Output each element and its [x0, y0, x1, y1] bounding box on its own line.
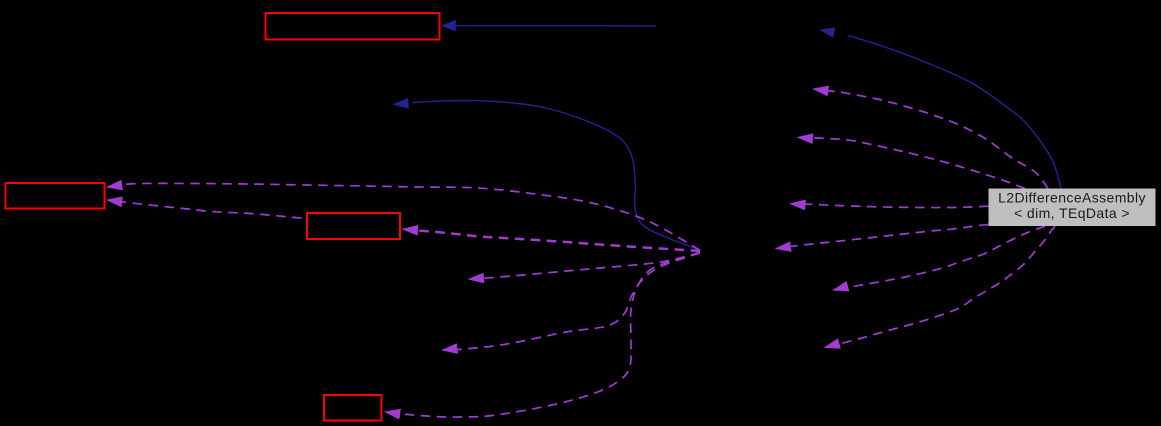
wire: dashed usage edge M1 (node B to middle red node) — [418, 230, 700, 250]
node: left red box (referenced class, label hidden) — [6, 183, 105, 209]
svg-text:L2DifferenceAssembly: L2DifferenceAssembly — [998, 190, 1146, 206]
arrowhead of edge R5 — [832, 281, 849, 291]
node U1: L2DifferenceAssembly < dim, TEqData > (current class, grey) — [989, 189, 1156, 227]
wire: solid inheritance edge E3 (invisible node B to invisible node C) — [412, 100, 700, 250]
arrowhead of edge R6 — [824, 338, 841, 348]
arrowhead of edge R4 — [775, 241, 792, 252]
node: middle red box (referenced class, label hidden) — [307, 213, 400, 239]
wire: dashed usage edge D5 (node B to bottom red node) — [402, 253, 700, 417]
svg-text:< dim, TEqData >: < dim, TEqData > — [1014, 205, 1130, 221]
arrowhead of edge R1 — [812, 86, 829, 97]
arrowhead of edge E3 — [393, 98, 409, 109]
node: top red box (referenced class, label hidden) — [266, 13, 440, 40]
arrowhead of edge D3 — [468, 273, 485, 284]
wire: dashed usage edge D2 (node B to left red node, lower) — [121, 202, 700, 252]
arrowhead of edge M1 — [402, 225, 419, 236]
node: bottom red box (referenced class, label hidden) — [324, 395, 382, 421]
wire: dashed usage edge R1 (L2DifferenceAssembly to invisible node) — [828, 91, 1048, 189]
wire: dashed usage edge R2 (L2DifferenceAssembly to invisible node) — [812, 138, 1025, 189]
arrowhead of edge E1 — [441, 20, 456, 31]
arrowhead of edge R3 — [789, 200, 806, 211]
arrowhead of edge R2 — [797, 133, 814, 144]
wire: dashed usage edge D4 (node B to invisible node) — [457, 253, 700, 350]
wire: dashed usage edge R3 (L2DifferenceAssembly to invisible node) — [805, 204, 989, 207]
arrowhead of edge E2 — [819, 27, 835, 37]
arrowhead of edge D4 — [441, 343, 458, 354]
wire: dashed usage edge D3 (node B to invisible node) — [483, 253, 700, 279]
arrowhead of edge D5 — [384, 409, 401, 420]
wire: dashed usage edge R6 (L2DifferenceAssembly to invisible node) — [841, 226, 1055, 343]
wire: dashed usage edge R4 (L2DifferenceAssembly to invisible node B) — [790, 225, 989, 247]
arrowhead of edge D2 — [106, 197, 123, 208]
wire: dashed usage edge D1 (node B to left red node, upper) — [122, 183, 700, 250]
wire: solid inheritance edge E2 (L2DifferenceAssembly to invisible node A) — [848, 36, 1061, 189]
wire: dashed usage edge R5 (L2DifferenceAssembly to invisible node) — [848, 226, 1045, 287]
arrowhead of edge D1 — [106, 180, 123, 191]
wire: solid inheritance edge E1 (invisible node A to top red node) — [446, 25, 656, 27]
